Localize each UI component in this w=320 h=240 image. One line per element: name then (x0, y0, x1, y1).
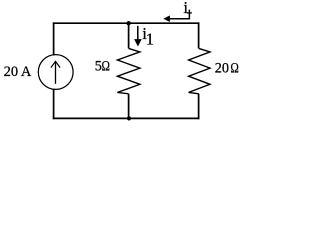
wire: left branch top lead (top-left corner down to source) (53, 22, 55, 55)
current source 20A (38, 55, 73, 90)
wire: 5-ohm branch bottom lead (128, 94, 130, 119)
node: top junction dot (126, 21, 130, 25)
wire: top wire (53, 22, 200, 24)
wire: 5-ohm branch top lead (128, 23, 130, 48)
svg-text:20 A: 20 A (4, 64, 32, 80)
current arrow i1 (down arrow) (134, 26, 142, 47)
svg-text:i: i (183, 0, 188, 17)
node: bottom junction dot (127, 116, 131, 120)
wire: bottom wire (53, 117, 200, 119)
wire: left branch bottom lead (source to bottom-left corner) (53, 89, 55, 119)
svg-text:Ω: Ω (101, 58, 110, 73)
resistor R1 5 ohm (117, 48, 139, 93)
svg-text:1: 1 (146, 30, 154, 49)
wire: right branch top lead (198, 22, 200, 48)
wire: right branch bottom lead (198, 94, 200, 119)
resistor R2 20 ohm (189, 48, 210, 93)
current arrow i (elbow, pointing left) (163, 10, 192, 22)
svg-text:Ω: Ω (230, 60, 239, 75)
svg-text:20: 20 (215, 61, 229, 77)
